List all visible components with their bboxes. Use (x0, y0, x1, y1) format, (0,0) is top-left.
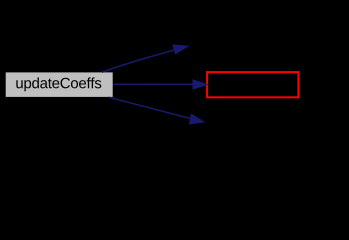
arrowhead bottom (189, 114, 204, 124)
arrowhead middle (193, 80, 207, 89)
edge updateCoeffs -> red node (wire) (114, 83, 197, 85)
arrowhead top (173, 45, 188, 54)
edge updateCoeffs -> top callee (wire) (102, 48, 182, 72)
node (red, truncated callee) (207, 72, 298, 97)
node updateCoeffs (5, 72, 113, 98)
edge updateCoeffs -> bottom callee (wire) (109, 97, 199, 120)
